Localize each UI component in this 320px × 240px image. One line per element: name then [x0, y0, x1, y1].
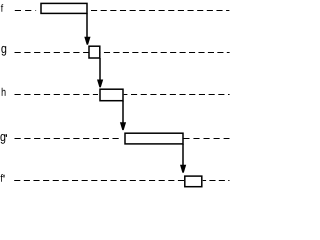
lifeline g-prime dashed left segment	[15, 138, 121, 140]
lifeline g dashed right segment	[101, 52, 230, 54]
activation box f	[41, 3, 87, 13]
call arrow g to h (head)	[97, 80, 103, 88]
lifeline f dashed left segment	[15, 10, 36, 12]
lifeline h dashed right segment	[124, 94, 230, 96]
lifeline g-prime dashed right segment	[183, 138, 229, 140]
label f-prime	[0, 174, 4, 182]
call arrow h to g' (head)	[120, 122, 126, 130]
call arrow g' to f' (head)	[180, 165, 186, 173]
lifeline h dashed left segment	[15, 94, 99, 96]
lifeline f-prime dashed left segment	[14, 180, 184, 182]
lifeline g dashed left segment	[15, 52, 89, 54]
activation box g'	[125, 133, 183, 144]
label h	[2, 88, 6, 96]
activation box h	[100, 89, 123, 101]
lifeline f-prime dashed right segment	[203, 180, 230, 182]
activation box f'	[185, 176, 202, 187]
lifeline f dashed right segment	[88, 10, 230, 12]
activation box g	[89, 46, 100, 58]
call arrow g to h (stem)	[99, 58, 101, 81]
call arrow f to g (head)	[84, 37, 90, 45]
call arrow f to g (stem)	[86, 13, 88, 37]
label g	[1, 46, 6, 56]
label g-prime	[0, 134, 7, 144]
label f	[1, 4, 3, 12]
call arrow g' to f' (stem)	[182, 144, 184, 165]
call arrow h to g' (stem)	[122, 101, 124, 123]
